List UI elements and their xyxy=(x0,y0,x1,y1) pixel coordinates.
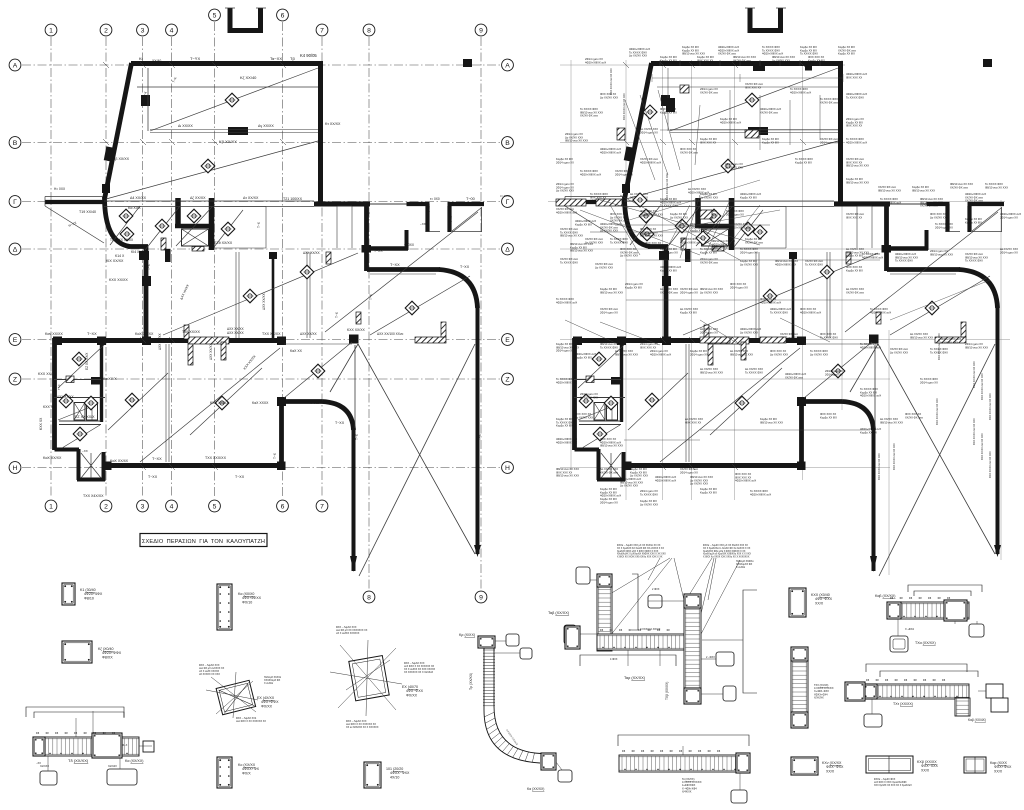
svg-text:ΕΖ ΧΧ ΧΧ/Χ: ΕΖ ΧΧ ΧΧ/Χ xyxy=(85,352,89,370)
right plan hatch vert at curve room xyxy=(961,322,966,337)
svg-text:Τ−ΧΧ: Τ−ΧΧ xyxy=(235,475,245,479)
svg-text:ΧΧ/ΧΧ ΦΧ ανα2Φ14 ημσυ ΧΧ: ΧΧ/ΧΧ ΦΧ ανα2Φ14 ημσυ ΧΧ xyxy=(600,307,618,314)
left plan notch room diagonal xyxy=(452,208,481,231)
right plan hatch marks Delta room xyxy=(846,252,851,264)
grid bubble 4 top xyxy=(166,24,178,36)
left plan stair box SW xyxy=(55,449,106,481)
svg-text:Φ−Χ: Φ−Χ xyxy=(122,743,128,747)
right plan hatched beam D13 on E xyxy=(935,337,966,343)
left plan stair box X xyxy=(81,453,101,478)
grid line 3 xyxy=(142,37,144,498)
right plan wall Delta east xyxy=(886,246,928,250)
right plan void X braces xyxy=(850,344,995,576)
svg-text:Κομβο ΧΧ ΦΧ2Φ14 ημσυ ΧΧ: Κομβο ΧΧ ΦΧ2Φ14 ημσυ ΧΧ xyxy=(556,157,574,164)
bottom row section B xyxy=(866,756,913,773)
left plan diagonals EH room xyxy=(108,348,280,462)
grid row Z xyxy=(22,378,500,380)
left plan inner wall x101 xyxy=(100,341,103,422)
svg-text:τ= 0ΧΧ: τ= 0ΧΧ xyxy=(500,194,509,198)
left plan diagonal room BG xyxy=(106,141,318,199)
left plan hatch stub wall xyxy=(161,238,166,250)
left plan wall K33 to curve xyxy=(281,399,322,404)
svg-text:Δζ ΧΧ/ΧΧ: Δζ ΧΧ/ΧΧ xyxy=(190,196,206,200)
svg-text:τ= 0ΧΧ: τ= 0ΧΧ xyxy=(404,243,415,247)
section K4 xyxy=(217,584,232,630)
beam T1b vertical xyxy=(597,574,612,651)
svg-text:ΦΧΧ ΧΧΧ ΧΧΔο ΧΧ/ΧΧ ΧΧΧ: ΦΧΧ ΧΧΧ ΧΧΔο ΧΧ/ΧΧ ΧΧΧ xyxy=(575,412,593,419)
svg-text:Ταβ (ΧΧ/ΧΧ): Ταβ (ΧΧ/ΧΧ) xyxy=(548,611,570,615)
beam T27 right vert xyxy=(955,698,970,716)
right plan thin lines curve room xyxy=(804,274,956,344)
right plan east wall of EH room xyxy=(799,400,804,467)
svg-text:ΧΧ/ΧΧ ΦΧ αναΔο ΧΧ/ΧΧ ΧΧΧ: ΧΧ/ΧΧ ΦΧ αναΔο ΧΧ/ΧΧ ΧΧΧ xyxy=(585,237,603,244)
left plan notch wall b xyxy=(448,204,485,232)
svg-text:ΦΧΧ ΧΧ/ΧΧ ανα ΧΧ ΧΧΧ: ΦΧΧ ΧΧ/ΧΧ ανα ΧΧ ΧΧΧ xyxy=(938,333,941,360)
svg-text:ΧΧ/ΧΧ ΦΧ αναΔο ΧΧ/ΧΧ ΧΧΧ: ΧΧ/ΧΧ ΦΧ αναΔο ΧΧ/ΧΧ ΧΧΧ xyxy=(890,347,908,354)
left plan hatched beam on E xyxy=(188,337,229,344)
grid row H xyxy=(22,467,500,469)
svg-text:1: 1 xyxy=(49,27,53,34)
left plan hatch marks near E xyxy=(188,344,193,365)
beam R4 stub xyxy=(143,741,154,752)
section K1 xyxy=(62,583,75,605)
left plan column K14 xyxy=(139,251,149,260)
svg-text:2Φ14 ημσυ ΧΧΤο ΧΧ/ΧΧ ΦΧΧ: 2Φ14 ημσυ ΧΧΤο ΧΧ/ΧΧ ΦΧΧ xyxy=(640,489,658,496)
svg-text:ΦΧΧ ΧΧΧ ΧΧΧΧ/ΧΧ ΦΧ αναΔο ΧΧ/ΧΧ: ΦΧΧ ΧΧΧ ΧΧΧΧ/ΧΧ ΦΧ αναΔο ΧΧ/ΧΧ ΧΧΧ xyxy=(620,247,638,258)
J curve ticks on arc xyxy=(484,712,534,762)
svg-text:Κομβο ΧΧ ΦΧΦΧΧ ΧΧΧ ΧΧ: Κομβο ΧΧ ΦΧΦΧΧ ΧΧΧ ΧΧ xyxy=(700,137,717,144)
svg-text:ΚαΧ ΧΧ/ΧΧ: ΚαΧ ΧΧ/ΧΧ xyxy=(43,456,62,460)
svg-text:Κ4 90/05: Κ4 90/05 xyxy=(300,53,317,58)
bottom row section C xyxy=(0,0,1,1)
right plan beam block D1 xyxy=(748,127,768,135)
right plan diagonal room G9 xyxy=(845,212,998,332)
svg-text:2Φ14 ημσυ ΧΧΚομβο ΧΧ ΦΧΦΧΧ ΧΧΧ: 2Φ14 ημσυ ΧΧΚομβο ΧΧ ΦΧΦΧΧ ΧΧΧ ΧΧ xyxy=(846,117,864,128)
left plan thin verticals G-D strip xyxy=(337,206,352,248)
left plan wall to K14 xyxy=(128,244,148,249)
right plan beam D1 double line xyxy=(670,130,838,133)
svg-text:ΤΧβ (ΧΧ/ΧΧ): ΤΧβ (ΧΧ/ΧΧ) xyxy=(665,682,669,700)
svg-text:Τ−Χ: Τ−Χ xyxy=(449,216,453,222)
grid bubble 9 top xyxy=(475,24,487,36)
section K11 xyxy=(364,762,381,788)
right plan stair diagonals xyxy=(630,206,763,250)
left plan wall T23 xyxy=(364,202,369,271)
right plan hatch below void xyxy=(712,247,724,252)
svg-text:ΧΧ/ΧΧ ΦΧ αναΦΧΧ ΧΧΧ ΧΧ: ΧΧ/ΧΧ ΦΧ αναΦΧΧ ΧΧΧ ΧΧ xyxy=(745,82,763,89)
svg-text:6: 6 xyxy=(281,503,285,510)
left plan beam row Z thin xyxy=(54,379,101,381)
svg-text:Τβ: Τβ xyxy=(290,56,295,61)
svg-text:Φ8Φ8Φ8Φ8Φ8Φ8Φ8Φ8Φ8: Φ8Φ8Φ8Φ8Φ8Φ8Φ8Φ8Φ8 xyxy=(36,732,116,735)
svg-text:Δ: Δ xyxy=(505,246,510,253)
svg-text:ΦΧΧ ΧΧ/ΧΧ ανα ΧΧ ΧΧΧ: ΦΧΧ ΧΧ/ΧΧ ανα ΧΧ ΧΧΧ xyxy=(893,443,896,470)
svg-text:ΚΧΧ ΧΧ/ΧΧ: ΚΧΧ ΧΧ/ΧΧ xyxy=(109,278,128,282)
svg-text:4 ΦΧΧ: 4 ΦΧΧ xyxy=(610,658,618,661)
grid bubble H right xyxy=(502,462,514,474)
right plan hatch stub wall xyxy=(681,238,686,250)
right plan beams along Gamma xyxy=(624,201,834,207)
svg-text:B: B xyxy=(505,140,510,147)
svg-text:ΣΧΕΔΙΟ ΠΕΡΑΣΙΩΝ ΓΙΑ ΤΟΝ ΚΑΛΟΥΠ: ΣΧΕΔΙΟ ΠΕΡΑΣΙΩΝ ΓΙΑ ΤΟΝ ΚΑΛΟΥΠΑΤΖΗ xyxy=(142,539,265,545)
svg-text:9: 9 xyxy=(479,27,483,34)
left plan elevator shafts xyxy=(74,403,85,421)
grid bubble &#915; right xyxy=(502,196,514,208)
svg-text:Τ−Χ: Τ−Χ xyxy=(355,433,359,440)
right plan vertical beam D27b xyxy=(686,344,689,462)
left plan wall row H xyxy=(104,463,284,468)
right plan top wall row A xyxy=(651,61,843,66)
grid bubble 1 bottom xyxy=(45,500,57,512)
beam T28 body xyxy=(619,755,749,772)
svg-text:5: 5 xyxy=(213,12,217,19)
svg-text:ΚαΧ ΧΧ/ΧΧ: ΚαΧ ΧΧ/ΧΧ xyxy=(135,332,154,336)
svg-text:Τ−Χ: Τ−Χ xyxy=(427,206,431,212)
left plan diagonal room DE xyxy=(163,253,358,335)
grid row &#916; xyxy=(22,248,500,250)
right plan void slab edge thin xyxy=(874,345,876,428)
right plan columns at z xyxy=(611,377,621,385)
right plan slab edge stair room xyxy=(734,207,786,249)
right plan columns on E wall xyxy=(573,337,582,346)
left plan stair diagonals xyxy=(110,206,243,250)
svg-text:Κβ ΧΧ/ΧΧ: Κβ ΧΧ/ΧΧ xyxy=(219,139,237,144)
grid bubble 8 top xyxy=(363,24,375,36)
svg-text:Τ−ΧΧ: Τ−ΧΧ xyxy=(335,421,345,425)
svg-text:Δο ΧΧ/ΧΧ ΧΧΧ2Φ14 ημσυ ΧΧ: Δο ΧΧ/ΧΧ ΧΧΧ2Φ14 ημσυ ΧΧ xyxy=(640,127,658,134)
svg-text:Δο ΧΧ/ΧΧ ΧΧΧΦΧΧ ΧΧΧ ΧΧ: Δο ΧΧ/ΧΧ ΧΧΧΦΧΧ ΧΧΧ ΧΧ xyxy=(685,417,703,424)
right plan arc NE xyxy=(959,270,998,309)
left plan dim marks xyxy=(137,68,318,131)
svg-text:3: 3 xyxy=(141,27,145,34)
left plan slanted west wall xyxy=(105,63,132,199)
svg-text:Κα (ΧΧ/ΧΧ): Κα (ΧΧ/ΧΧ) xyxy=(527,787,544,791)
right plan diagonal narrow room xyxy=(804,342,872,398)
right plan notch wall a xyxy=(927,204,950,232)
svg-text:ΚΧΧ ΧΧ/ΧΧ: ΚΧΧ ΧΧ/ΧΧ xyxy=(210,401,229,405)
section K2 xyxy=(62,641,92,663)
left plan notch wall a xyxy=(407,204,430,232)
left plan diagonal curve room xyxy=(370,276,470,335)
svg-text:6: 6 xyxy=(281,12,285,19)
svg-text:Κι: Κι xyxy=(139,56,143,61)
right plan diagonal room AB xyxy=(670,68,838,131)
beam T16 endblock top xyxy=(684,594,701,608)
svg-text:Τ−ΧΧ: Τ−ΧΧ xyxy=(148,475,158,479)
svg-text:Δο ΧΧ/ΧΧ ΧΧΧΧΧ/ΧΧ ΦΧ ανα: Δο ΧΧ/ΧΧ ΧΧΧΧΧ/ΧΧ ΦΧ ανα xyxy=(660,287,678,294)
left plan stair wall mid xyxy=(175,224,213,229)
right plan wall x146 down to E xyxy=(664,246,669,341)
J curve beam xyxy=(484,646,540,763)
left plan corner K33 xyxy=(277,397,286,406)
right plan column K28 xyxy=(869,335,879,344)
right plan small ticks on walls xyxy=(623,62,806,470)
svg-text:Τ−Χ: Τ−Χ xyxy=(367,211,371,218)
right plan construction lines xyxy=(548,60,1010,575)
grid line 5 xyxy=(214,22,216,498)
beam T3 left endblock xyxy=(33,737,45,756)
svg-text:Ταρ (ΧΧ/ΧΧ): Ταρ (ΧΧ/ΧΧ) xyxy=(624,676,646,680)
svg-text:Δο ΧΧ/ΧΧ ΧΧΧ2Φ14 ημσυ ΧΧ: Δο ΧΧ/ΧΧ ΧΧΧ2Φ14 ημσυ ΧΧ xyxy=(1000,247,1018,254)
svg-text:ΦΧΧ ΧΧ/ΧΧ ανα ΧΧ ΧΧΧ: ΦΧΧ ΧΧ/ΧΧ ανα ΧΧ ΧΧΧ xyxy=(623,93,626,120)
grid bubble H left xyxy=(9,462,21,474)
left plan east wall gridline 7 xyxy=(318,61,323,206)
svg-text:2Φ14 ημσυ ΧΧ2Φ14 ημσυ ΧΧΔο ΧΧ/: 2Φ14 ημσυ ΧΧ2Φ14 ημσυ ΧΧΔο ΧΧ/ΧΧ ΧΧΧ xyxy=(556,182,574,193)
svg-text:Τ−ΧΧ: Τ−ΧΧ xyxy=(374,249,383,253)
right plan thin verticals G-D strip xyxy=(857,206,872,248)
beam T16 vertical xyxy=(684,594,701,704)
section K0 stacked xyxy=(978,684,1008,712)
svg-text:ΦΧΧ ΧΧΧ ΧΧΔο ΧΧ/ΧΧ ΧΧΧ: ΦΧΧ ΧΧΧ ΧΧΔο ΧΧ/ΧΧ ΧΧΧ xyxy=(930,212,948,219)
left plan slab edge Gamma thin xyxy=(370,203,407,205)
svg-text:ΚΙ4 ΧΧ/4Χ: ΚΙ4 ΧΧ/4Χ xyxy=(131,250,147,254)
left plan wall stub row Gamma west xyxy=(45,200,106,204)
right plan extra diamonds xyxy=(633,193,647,207)
svg-text:ΚαΧ ΧΧΧΧ: ΚαΧ ΧΧΧΧ xyxy=(252,401,269,405)
svg-text:Καβ (ΧΧ/4Χ): Καβ (ΧΧ/4Χ) xyxy=(968,718,986,722)
beam T28 endblock xyxy=(736,753,750,773)
grid line 7 xyxy=(321,37,323,498)
left plan wedge end x477 xyxy=(474,545,481,557)
left plan void slab edge thin xyxy=(354,345,356,428)
svg-text:Η= 0ΧΧ: Η= 0ΧΧ xyxy=(54,187,66,191)
right plan column K5 xyxy=(661,95,670,106)
grid bubble E right xyxy=(502,334,514,346)
svg-text:Κομβο ΧΧ ΦΧΚομβο ΧΧ ΦΧ: Κομβο ΧΧ ΦΧΚομβο ΧΧ ΦΧ xyxy=(965,217,982,224)
svg-text:A: A xyxy=(505,62,510,69)
grid bubble 9 bottom xyxy=(475,591,487,603)
svg-text:2Φ14 ημσυ ΧΧ2Φ14 ημσυ ΧΧΚομβο: 2Φ14 ημσυ ΧΧ2Φ14 ημσυ ΧΧΚομβο ΧΧ ΦΧ xyxy=(690,222,708,233)
svg-text:Τ−ΧΧ: Τ−ΧΧ xyxy=(87,332,97,336)
right plan diagonal room BG xyxy=(626,141,838,199)
right plan inner wall x101 xyxy=(620,341,623,422)
svg-text:ΤαΧ ΧΧ/ΧΧ: ΤαΧ ΧΧ/ΧΧ xyxy=(182,330,200,334)
svg-text:Δ4 ΧΧ/ΧΧ: Δ4 ΧΧ/ΧΧ xyxy=(130,196,147,200)
svg-text:Δο ΧΧ/ΧΧ ΧΧΧΧΧ/ΧΧ ΦΧ ανα: Δο ΧΧ/ΧΧ ΧΧΧΧΧ/ΧΧ ΦΧ ανα xyxy=(600,467,618,474)
left plan diagonal room AB xyxy=(150,68,318,131)
left plan diagonal narrow room xyxy=(284,342,352,398)
grid bubble 7 top xyxy=(316,24,328,36)
svg-text:Κομβο ΧΧ ΦΧΚομβο ΧΧ ΦΧ: Κομβο ΧΧ ΦΧΚομβο ΧΧ ΦΧ xyxy=(700,487,717,494)
right plan long wall x353 down xyxy=(872,428,876,571)
svg-text:2 −ΦΧΧ: 2 −ΦΧΧ xyxy=(706,656,715,659)
right plan hatch marks near E xyxy=(708,344,713,365)
svg-text:5: 5 xyxy=(213,503,217,510)
grid bubble 2 top xyxy=(100,24,112,36)
left plan stair void box xyxy=(182,229,209,246)
grid bubble &#915; left xyxy=(9,196,21,208)
left plan top wall row A xyxy=(131,61,323,66)
svg-text:ΧΧ/40: ΧΧ/40 xyxy=(152,59,161,63)
grid bubble 6 bottom xyxy=(277,500,289,512)
left plan diamonds xyxy=(225,93,239,107)
left plan columns on H wall xyxy=(103,462,112,471)
grid row A xyxy=(22,64,500,66)
svg-text:ΦΧΧ ΧΧ/ΧΧ ανα ΧΧ ΧΧΧ: ΦΧΧ ΧΧ/ΧΧ ανα ΧΧ ΧΧΧ xyxy=(981,433,984,460)
grid line 1 xyxy=(50,37,52,498)
svg-text:ΚαΧ ΧΧ: ΚαΧ ΧΧ xyxy=(290,349,303,353)
right plan stair void box xyxy=(702,229,729,246)
svg-text:ΦΧΧ ΧΧ/ΧΧ ανα ΧΧ ΧΧΧ: ΦΧΧ ΧΧ/ΧΧ ανα ΧΧ ΧΧΧ xyxy=(997,413,1000,440)
left plan wall row E xyxy=(53,338,284,343)
svg-text:ΕΖθ ΧΧ/ΧΧ: ΕΖθ ΧΧ/ΧΧ xyxy=(214,241,233,245)
right plan wall row E xyxy=(573,338,804,343)
right plan diagonals EH room xyxy=(628,348,800,462)
svg-text:ΧΧ/Χ: ΧΧ/Χ xyxy=(921,768,930,772)
right plan corner K33 xyxy=(797,397,806,406)
svg-text:Φ8/10: Φ8/10 xyxy=(84,596,94,600)
left plan EZ17 wall xyxy=(59,421,101,425)
svg-text:ΦΧΧ ΧΧ/ΧΧ ανα ΧΧ ΧΧΧ: ΦΧΧ ΧΧ/ΧΧ ανα ΧΧ ΧΧΧ xyxy=(973,418,976,445)
svg-text:Κα ΧΧΧ: Κα ΧΧΧ xyxy=(128,206,141,210)
left plan column K9 xyxy=(102,184,110,193)
svg-text:Γ: Γ xyxy=(13,199,17,206)
left plan wall Gamma mid xyxy=(314,202,370,207)
svg-text:Τ−Χ: Τ−Χ xyxy=(57,384,61,390)
left plan columns at z xyxy=(91,377,101,385)
fan lines from notes xyxy=(600,558,740,636)
svg-text:Δτ ΧΧ/ΧΧ: Δτ ΧΧ/ΧΧ xyxy=(243,196,259,200)
svg-text:Δο ΧΧ/ΧΧ ΧΧΧ2Φ14 ημσυ ΧΧ: Δο ΧΧ/ΧΧ ΧΧΧ2Φ14 ημσυ ΧΧ xyxy=(700,327,718,334)
svg-text:−ΧΧ: −ΧΧ xyxy=(420,222,426,226)
right plan column K14 xyxy=(659,251,669,260)
beam Txx tall xyxy=(791,647,808,728)
right plan wedge end x477 xyxy=(994,545,1001,557)
grid bubble 2 bottom xyxy=(100,500,112,512)
svg-text:ΦΧΧ ΧΧ/ΧΧ ανα ΧΧ ΧΧΧ: ΦΧΧ ΧΧ/ΧΧ ανα ΧΧ ΧΧΧ xyxy=(878,453,881,480)
svg-text:ΧΧ/ΧΧ ΦΧ αναΦΧΧ ΧΧΧ ΧΧ: ΧΧ/ΧΧ ΦΧ αναΦΧΧ ΧΧΧ ΧΧ xyxy=(846,212,864,219)
svg-text:1: 1 xyxy=(49,503,53,510)
svg-text:Φ8/10 ανα ΧΧ ΧΧΧ4Φ20+ΧΦΧΧ ανΧ4: Φ8/10 ανα ΧΧ ΧΧΧ4Φ20+ΧΦΧΧ ανΧ4Φ20+ΧΦΧΧ α… xyxy=(712,239,735,250)
left plan block T8 on wall A xyxy=(463,59,472,67)
grid bubble &#916; right xyxy=(502,243,514,255)
svg-text:2Φ14 ημσυ ΧΧΚομβο ΧΧ ΦΧ: 2Φ14 ημσυ ΧΧΚομβο ΧΧ ΦΧ xyxy=(625,282,643,289)
svg-text:Τ−ΧΧ: Τ−ΧΧ xyxy=(310,401,320,405)
svg-text:ΦΧΧ ΧΧ/ΧΧ ανα ΧΧ ΧΧΧ: ΦΧΧ ΧΧ/ΧΧ ανα ΧΧ ΧΧΧ xyxy=(936,398,939,425)
svg-text:ΔΧΧ ΧΧ/ΧΧ: ΔΧΧ ΧΧ/ΧΧ xyxy=(303,251,321,255)
right plan trapezoid edge below stub xyxy=(565,197,624,244)
svg-text:Το ΧΧ/ΧΧ ΦΧΧΔο ΧΧ/ΧΧ ΧΧΧ: Το ΧΧ/ΧΧ ΦΧΧΔο ΧΧ/ΧΧ ΧΧΧ xyxy=(810,349,828,356)
svg-text:ΧΧ/ΧΧ ΦΧ αναΤο ΧΧ/ΧΧ ΦΧΧ: ΧΧ/ΧΧ ΦΧ αναΤο ΧΧ/ΧΧ ΦΧΧ xyxy=(560,257,578,264)
svg-text:Κα (ΧΧ/ΧΧ): Κα (ΧΧ/ΧΧ) xyxy=(125,759,143,763)
left plan junction block Delta xyxy=(362,245,372,253)
svg-text:ΧΧ/ΧΧ ΦΧ αναΔο ΧΧ/ΧΧ ΧΧΧ: ΧΧ/ΧΧ ΦΧ αναΔο ΧΧ/ΧΧ ΧΧΧ xyxy=(595,262,613,269)
svg-text:−ΧΧ: −ΧΧ xyxy=(82,449,88,453)
svg-text:Φ8/ΧΧ: Φ8/ΧΧ xyxy=(102,655,113,659)
right plan stair wall hatch vert 1 xyxy=(695,198,701,228)
left plan partition y398 xyxy=(54,397,105,399)
grid bubble 7 bottom xyxy=(316,500,328,512)
grid line 8 xyxy=(368,37,370,589)
grid bubble Z left xyxy=(9,373,21,385)
right plan partition y398 xyxy=(574,397,625,399)
left plan inner wall x273 xyxy=(272,254,275,338)
svg-text:Κομβο ΧΧ ΦΧ2Φ14 ημσυ ΧΧ: Κομβο ΧΧ ΦΧ2Φ14 ημσυ ΧΧ xyxy=(600,497,618,504)
svg-text:ΚΧΧ ΧΧ/ΧΧ: ΚΧΧ ΧΧ/ΧΧ xyxy=(347,328,365,332)
svg-text:Z: Z xyxy=(505,376,509,383)
svg-text:ΧΧ/ΧΧ ΦΧ ανα2Φ14 ημσυ ΧΧ: ΧΧ/ΧΧ ΦΧ ανα2Φ14 ημσυ ΧΧ xyxy=(820,137,838,144)
left plan vertical beam D27b xyxy=(166,344,169,462)
right plan leader lines web xyxy=(565,90,830,345)
svg-text:ΚΙΧ ΧΧ/ΧΧ: ΚΙΧ ΧΧ/ΧΧ xyxy=(106,259,124,263)
left plan void X braces xyxy=(330,344,475,576)
left plan wall x146 down to E xyxy=(144,246,149,341)
grid bubble E left xyxy=(9,334,21,346)
svg-text:Τ−00: Τ−00 xyxy=(466,197,475,201)
svg-text:ΦΧΧ ΧΧΧ ΧΧΧΧ/ΧΧ ΦΧ ανα: ΦΧΧ ΧΧΧ ΧΧΧΧ/ΧΧ ΦΧ ανα xyxy=(905,412,923,419)
svg-text:Το ΧΧ/ΧΧ ΦΧΧ2Φ14 ημσυ ΧΧ: Το ΧΧ/ΧΧ ΦΧΧ2Φ14 ημσυ ΧΧ xyxy=(740,247,758,254)
grid bubble 5 bottom xyxy=(209,500,221,512)
svg-text:4Φ20+ΧΦΧΧ ανΧ4Φ20+ΧΦΧΧ ανΧ: 4Φ20+ΧΦΧΧ ανΧ4Φ20+ΧΦΧΧ ανΧ xyxy=(655,475,676,482)
svg-text:Δι ΧΧ/ΧΧ: Δι ΧΧ/ΧΧ xyxy=(178,124,193,128)
svg-text:τ= 0Χ0: τ= 0Χ0 xyxy=(430,197,440,201)
svg-text:Τρ (ΧΧ/ΧΧ): Τρ (ΧΧ/ΧΧ) xyxy=(469,673,473,690)
svg-text:2Φ14 ημσυ ΧΧΧΧ/ΧΧ ΦΧ ανα: 2Φ14 ημσυ ΧΧΧΧ/ΧΧ ΦΧ ανα xyxy=(700,257,718,264)
beam Txx endblocks xyxy=(791,647,808,661)
grid row &#915; xyxy=(22,201,500,203)
right plan arc SE room xyxy=(842,402,874,431)
beam T3 right endblock xyxy=(92,733,122,758)
svg-text:ΚΧΧ ΧΧ: ΚΧΧ ΧΧ xyxy=(43,405,56,409)
svg-text:Χ +ΦΧ4: Χ +ΦΧ4 xyxy=(905,628,914,631)
right plan slab edge Gamma thin xyxy=(890,203,927,205)
right plan vertical beam D22 xyxy=(756,252,759,338)
svg-text:2Φ14 ημσυ ΧΧ2Φ14 ημσυ ΧΧ: 2Φ14 ημσυ ΧΧ2Φ14 ημσυ ΧΧ xyxy=(825,369,843,376)
left plan wedge end x353 xyxy=(350,556,357,572)
svg-text:Δο ΧΧ/ΧΧ ΧΧΧΧΧ/ΧΧ ΦΧ ανα: Δο ΧΧ/ΧΧ ΧΧΧΧΧ/ΧΧ ΦΧ ανα xyxy=(846,287,864,294)
svg-text:ΦΧΧα − ΛαμδΧ ΧΧΧ μΧ ΧΧ ΧδαΧΧ Χ: ΦΧΧα − ΛαμδΧ ΧΧΧ μΧ ΧΧ ΧδαΧΧ ΧΧΧ ΧΧΧΧ Χ … xyxy=(703,544,751,559)
svg-text:Κα ΧΧ/Χ: Κα ΧΧ/Χ xyxy=(103,377,117,381)
right plan stair shaft U top xyxy=(748,8,783,33)
left plan column on slant xyxy=(104,146,115,161)
svg-text:Το ΧΧ/ΧΧ ΦΧΧ2Φ14 ημσυ ΧΧ: Το ΧΧ/ΧΧ ΦΧΧ2Φ14 ημσυ ΧΧ xyxy=(935,222,953,229)
svg-text:Κομβο ΧΧ ΦΧΤο ΧΧ/ΧΧ ΦΧΧΚομβο Χ: Κομβο ΧΧ ΦΧΤο ΧΧ/ΧΧ ΦΧΧΚομβο ΧΧ ΦΧ xyxy=(556,417,574,428)
right plan wall Gamma mid xyxy=(834,202,890,207)
left plan vertical beam D22 xyxy=(236,252,239,338)
beam T3 anchor plates xyxy=(40,771,57,785)
right plan column on slant xyxy=(624,146,635,161)
svg-text:2Φ14 ημσυ ΧΧΔο ΧΧ/ΧΧ ΧΧΧ: 2Φ14 ημσυ ΧΧΔο ΧΧ/ΧΧ ΧΧΧ xyxy=(580,392,598,399)
svg-text:Κομβο ΧΧ ΦΧΚομβο ΧΧ ΦΧ: Κομβο ΧΧ ΦΧΚομβο ΧΧ ΦΧ xyxy=(762,137,779,144)
right plan stair box X xyxy=(601,453,621,478)
grid row B xyxy=(22,142,500,144)
grid bubble Z right xyxy=(502,373,514,385)
right plan west wall below E xyxy=(572,338,577,450)
bottom row section A xyxy=(791,757,818,775)
left plan hatch below void xyxy=(192,247,204,252)
right plan hatched beam on E xyxy=(708,337,749,344)
svg-text:Δ: Δ xyxy=(13,246,18,253)
svg-text:Τ−Χ: Τ−Χ xyxy=(147,263,151,270)
left plan column on wall x146 xyxy=(142,276,151,286)
svg-text:ΤΧΧ ΧΧΧ/ΧΧ: ΤΧΧ ΧΧΧ/ΧΧ xyxy=(205,456,227,460)
grid bubble B right xyxy=(502,137,514,149)
svg-text:ΚαΧ ΧΧ/4Χ: ΚαΧ ΧΧ/4Χ xyxy=(110,459,129,463)
svg-text:H: H xyxy=(505,465,510,472)
grid bubble 6 top xyxy=(277,9,289,21)
left plan stair wall hatch vert 1 xyxy=(175,198,181,228)
left plan hatch marks Delta room xyxy=(326,252,331,264)
svg-text:Κομβο ΧΧ ΦΧΚομβο ΧΧ ΦΧ: Κομβο ΧΧ ΦΧΚομβο ΧΧ ΦΧ xyxy=(660,55,677,62)
svg-text:Τ−Χ: Τ−Χ xyxy=(319,163,323,170)
svg-text:ΤΧΧ Χ4Χ/ΧΧ: ΤΧΧ Χ4Χ/ΧΧ xyxy=(83,494,104,498)
left plan hatch vert at curve room xyxy=(441,322,446,337)
svg-text:ΧαΧ/4Χ: ΧαΧ/4Χ xyxy=(108,764,117,768)
svg-text:ΦΧΧ ΧΧ/ΧΧ ανα ΧΧ ΧΧΧ: ΦΧΧ ΧΧ/ΧΧ ανα ΧΧ ΧΧΧ xyxy=(989,451,992,478)
left plan notch thin edges xyxy=(426,207,482,232)
svg-text:Φ8Φ8Φ8Φ8Φ8Φ8Φ8Φ8Φ8: Φ8Φ8Φ8Φ8Φ8Φ8Φ8Φ8Φ8 xyxy=(866,679,946,682)
beam T16 endblock bottom xyxy=(684,688,701,704)
